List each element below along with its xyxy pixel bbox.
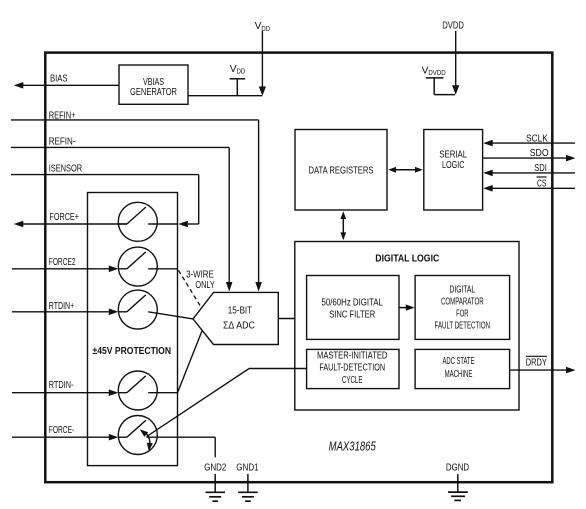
svg-text:SERIAL: SERIAL — [439, 150, 467, 161]
wire VDVDD tap — [426, 77, 444, 79]
svg-text:FORCE+: FORCE+ — [49, 212, 79, 223]
svg-text:DIGITAL: DIGITAL — [450, 285, 476, 296]
wire ADC output — [278, 318, 295, 320]
wire ISENSOR to protection box — [11, 174, 199, 176]
svg-text:LOGIC: LOGIC — [442, 160, 465, 171]
svg-text:GND1: GND1 — [236, 463, 258, 474]
svg-text:ADC STATE: ADC STATE — [443, 356, 475, 367]
svg-text:VDD: VDD — [230, 64, 245, 76]
wire RTDIN- to ADC lower edge — [178, 331, 203, 393]
wire REFIN+ to ADC — [11, 119, 259, 121]
svg-text:COMPARATOR: COMPARATOR — [441, 297, 484, 308]
wire FORCE+ right stub — [148, 223, 177, 225]
svg-text:DIGITAL LOGIC: DIGITAL LOGIC — [375, 254, 440, 265]
svg-text:±45V PROTECTION: ±45V PROTECTION — [93, 346, 172, 357]
svg-text:GENERATOR: GENERATOR — [130, 87, 177, 98]
svg-text:RTDIN-: RTDIN- — [49, 380, 74, 391]
VBIAS generator block — [119, 65, 188, 104]
svg-text:VDVDD: VDVDD — [422, 65, 446, 77]
switch FORCE2 — [118, 247, 157, 286]
svg-text:FOR: FOR — [456, 309, 469, 320]
svg-text:DVDD: DVDD — [442, 21, 464, 32]
svg-text:GND2: GND2 — [204, 463, 226, 474]
ground symbol GND1 — [238, 491, 258, 493]
50/60Hz sinc filter block — [307, 276, 399, 340]
wire data registers <-> digital logic — [342, 216, 344, 235]
+/-45V protection block — [88, 193, 178, 466]
svg-text:FAULT DETECTION: FAULT DETECTION — [435, 320, 491, 331]
svg-text:FORCE-: FORCE- — [49, 425, 74, 436]
svg-text:MASTER-INITIATED: MASTER-INITIATED — [317, 351, 387, 362]
switch RTDIN+ — [118, 290, 157, 329]
wire VDD tap — [230, 78, 246, 80]
wire VBIAS output to VDD node — [188, 95, 262, 97]
wire data registers <-> serial logic — [394, 169, 417, 171]
svg-text:15-BIT: 15-BIT — [228, 305, 253, 316]
svg-text:BIAS: BIAS — [50, 73, 68, 84]
svg-text:FAULT-DETECTION: FAULT-DETECTION — [319, 363, 385, 374]
switch FORCE- — [118, 416, 157, 455]
wire REFIN- to ADC — [11, 146, 229, 148]
svg-text:ISENSOR: ISENSOR — [49, 164, 83, 175]
data registers block — [295, 130, 387, 211]
svg-text:DATA REGISTERS: DATA REGISTERS — [309, 165, 374, 176]
svg-text:MACHINE: MACHINE — [445, 369, 473, 380]
svg-text:REFIN-: REFIN- — [49, 137, 76, 148]
svg-text:MAX31865: MAX31865 — [329, 439, 377, 454]
serial logic block — [424, 130, 483, 211]
ADC state machine block — [415, 349, 510, 388]
wire DVDD drop — [455, 31, 457, 86]
switch FORCE- rotation arc arrows — [146, 434, 150, 447]
wire RTDIN+ to ADC input point — [148, 312, 193, 319]
svg-text:DGND: DGND — [446, 463, 469, 474]
ground symbol DGND — [448, 491, 468, 493]
wire RTDIN- stub — [148, 392, 177, 394]
switch FORCE+ — [118, 202, 157, 241]
svg-text:CYCLE: CYCLE — [342, 375, 363, 386]
ADC 15-bit sigma-delta (pentagon) — [193, 292, 278, 344]
wire FORCE- to fault-detection block — [147, 369, 250, 437]
digital logic block — [295, 242, 519, 411]
wire sinc filter -> comparator — [399, 307, 407, 309]
svg-text:50/60Hz DIGITAL: 50/60Hz DIGITAL — [322, 298, 384, 309]
wire VDD drop — [261, 31, 263, 88]
master-initiated fault-detection block — [307, 349, 399, 388]
chip boundary MAX31865 — [45, 53, 552, 483]
digital comparator block — [415, 276, 510, 340]
wire 3-wire-only dashed link — [179, 270, 201, 307]
svg-text:DRDY: DRDY — [526, 357, 547, 368]
svg-text:ΣΔ ADC: ΣΔ ADC — [223, 321, 255, 332]
svg-text:ONLY: ONLY — [195, 280, 215, 291]
svg-text:RTDIN+: RTDIN+ — [49, 301, 74, 312]
switch RTDIN- — [118, 371, 157, 410]
wire FORCE- to GND2 — [147, 436, 216, 438]
svg-text:FORCE2: FORCE2 — [49, 257, 76, 268]
ground symbol GND2 — [206, 491, 226, 493]
wire FORCE2 right stub — [148, 268, 177, 270]
svg-text:SINC FILTER: SINC FILTER — [329, 310, 375, 321]
